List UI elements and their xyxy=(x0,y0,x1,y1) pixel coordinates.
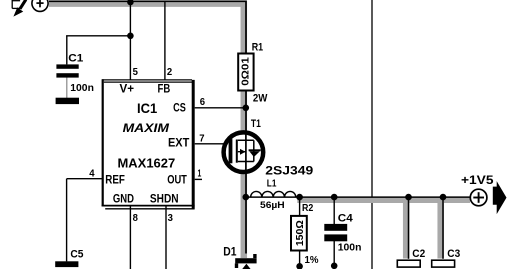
wire: top bus + branch black line xyxy=(49,1,246,253)
svg-text:C4: C4 xyxy=(338,213,354,225)
wire: pin8 GND down xyxy=(129,206,131,269)
svg-text:MAX1627: MAX1627 xyxy=(118,157,176,171)
junction dot C4 bottom xyxy=(331,263,338,269)
svg-text:SHDN: SHDN xyxy=(150,194,179,206)
wire fat gray: output rail to +1V5 xyxy=(297,197,470,204)
junction dot C4 xyxy=(331,194,338,201)
wire: output rail black line xyxy=(246,196,470,198)
svg-text:2SJ349: 2SJ349 xyxy=(265,163,313,177)
svg-text:8: 8 xyxy=(133,212,138,224)
svg-text:EXT: EXT xyxy=(168,138,189,150)
wire: C4 bottom drop xyxy=(333,241,335,266)
svg-text:C3: C3 xyxy=(447,248,460,260)
wire: pin3 SHDN down xyxy=(165,206,167,269)
capacitor C4 xyxy=(324,224,347,231)
ground bar under C1 xyxy=(56,98,79,104)
node line (vertical, full height, crosses output rail) xyxy=(371,0,373,269)
svg-text:2: 2 xyxy=(167,66,172,78)
svg-text:1%: 1% xyxy=(305,255,319,266)
wire: C4 top drop xyxy=(333,197,335,224)
wire: pin4 REF horizontal xyxy=(67,178,103,180)
svg-text:T1: T1 xyxy=(251,118,261,130)
capacitor C5 (cropped) xyxy=(55,261,78,267)
svg-text:7: 7 xyxy=(199,132,204,144)
junction dot C1 branch xyxy=(127,33,134,40)
wire: C2 drop black xyxy=(408,197,410,259)
wire: C1 branch horizontal xyxy=(66,35,130,37)
T1 inner drain-source lead xyxy=(245,133,247,172)
wire fat gray: C2 drop xyxy=(403,200,410,259)
capacitor C1 xyxy=(56,64,78,68)
junction dot L1/R2 xyxy=(296,194,303,201)
inductor L1 xyxy=(251,191,296,197)
wire: pin6 CS to drain node xyxy=(195,107,246,109)
T1 channel bar xyxy=(236,140,238,163)
svg-text:L1: L1 xyxy=(267,178,277,189)
junction dot C2 xyxy=(405,194,412,201)
T1 body diode cathode bar xyxy=(249,149,261,151)
svg-text:REF: REF xyxy=(105,175,125,187)
wire: pin4 to C5 vertical xyxy=(66,179,68,262)
resistor R1 xyxy=(238,54,253,91)
svg-text:GND: GND xyxy=(113,193,134,205)
svg-text:R1: R1 xyxy=(252,41,263,53)
IC1 box (MAX1627) xyxy=(103,81,192,206)
wire fat gray: top bus + branch down through R1/T1 xyxy=(49,4,244,258)
input terminal + xyxy=(32,0,48,11)
svg-text:IC1: IC1 xyxy=(137,101,158,116)
wire: C1 branch vertical xyxy=(66,36,68,65)
wire: R2 top drop xyxy=(299,197,301,215)
wire: pin7 EXT to gate xyxy=(195,143,230,145)
svg-text:CS: CS xyxy=(173,102,186,114)
svg-text:3: 3 xyxy=(168,212,173,224)
svg-text:D1: D1 xyxy=(223,247,237,259)
capacitor C2 (cropped plate) xyxy=(397,260,420,267)
svg-text:V+: V+ xyxy=(120,83,135,95)
T1 body diode link xyxy=(253,140,255,161)
diode D1 (Schottky, cropped) xyxy=(235,258,256,263)
svg-text:R2: R2 xyxy=(302,203,314,214)
svg-text:5: 5 xyxy=(133,66,138,78)
T1 bottom tap xyxy=(238,161,254,163)
svg-text:OUT: OUT xyxy=(167,175,187,187)
transistor T1 (P-MOSFET 2SJ349) xyxy=(224,132,264,172)
junction dot R2 bottom xyxy=(296,263,303,269)
svg-text:100n: 100n xyxy=(338,243,362,254)
svg-text:C2: C2 xyxy=(412,248,425,260)
resistor R2 xyxy=(291,216,307,251)
svg-text:C1: C1 xyxy=(68,52,83,64)
svg-text:150Ω: 150Ω xyxy=(294,220,306,246)
svg-text:2W: 2W xyxy=(253,93,268,105)
junction dot CS node xyxy=(243,105,250,112)
T1 bulk tap xyxy=(238,151,246,153)
T1 body diode triangle xyxy=(249,151,260,157)
input arrow (cropped) xyxy=(12,0,20,2)
capacitor C3 (cropped plate) xyxy=(432,260,455,267)
svg-text:0Ω01: 0Ω01 xyxy=(240,57,251,86)
svg-text:56µH: 56µH xyxy=(260,200,285,211)
wire fat gray: C3 drop xyxy=(437,200,444,259)
wire: pin2 FB to bus xyxy=(164,1,166,80)
T1 top tap xyxy=(238,139,254,141)
wire: pin1 OUT stub xyxy=(195,178,202,180)
junction dot drain/L1 xyxy=(243,194,250,201)
junction dot bus/pin5 xyxy=(127,0,134,5)
output arrow xyxy=(493,181,507,214)
svg-text:1: 1 xyxy=(198,168,202,180)
svg-text:100n: 100n xyxy=(70,83,94,94)
junction dot C3 xyxy=(440,194,447,201)
output terminal +1V5 xyxy=(470,189,487,206)
T1 bulk arrow xyxy=(240,149,246,155)
svg-text:C5: C5 xyxy=(70,249,83,261)
svg-text:FB: FB xyxy=(158,83,171,95)
svg-text:+1V5: +1V5 xyxy=(461,173,494,187)
svg-text:6: 6 xyxy=(200,96,205,108)
wire: R2 bottom drop xyxy=(299,251,301,267)
wire: C3 drop black xyxy=(442,197,444,259)
svg-text:4: 4 xyxy=(89,167,94,179)
T1 gate bar xyxy=(229,139,233,163)
svg-text:MAXIM: MAXIM xyxy=(123,121,170,135)
wire: pin5 V+ to bus xyxy=(129,1,131,80)
wire: C1 to ground bar xyxy=(66,78,68,99)
